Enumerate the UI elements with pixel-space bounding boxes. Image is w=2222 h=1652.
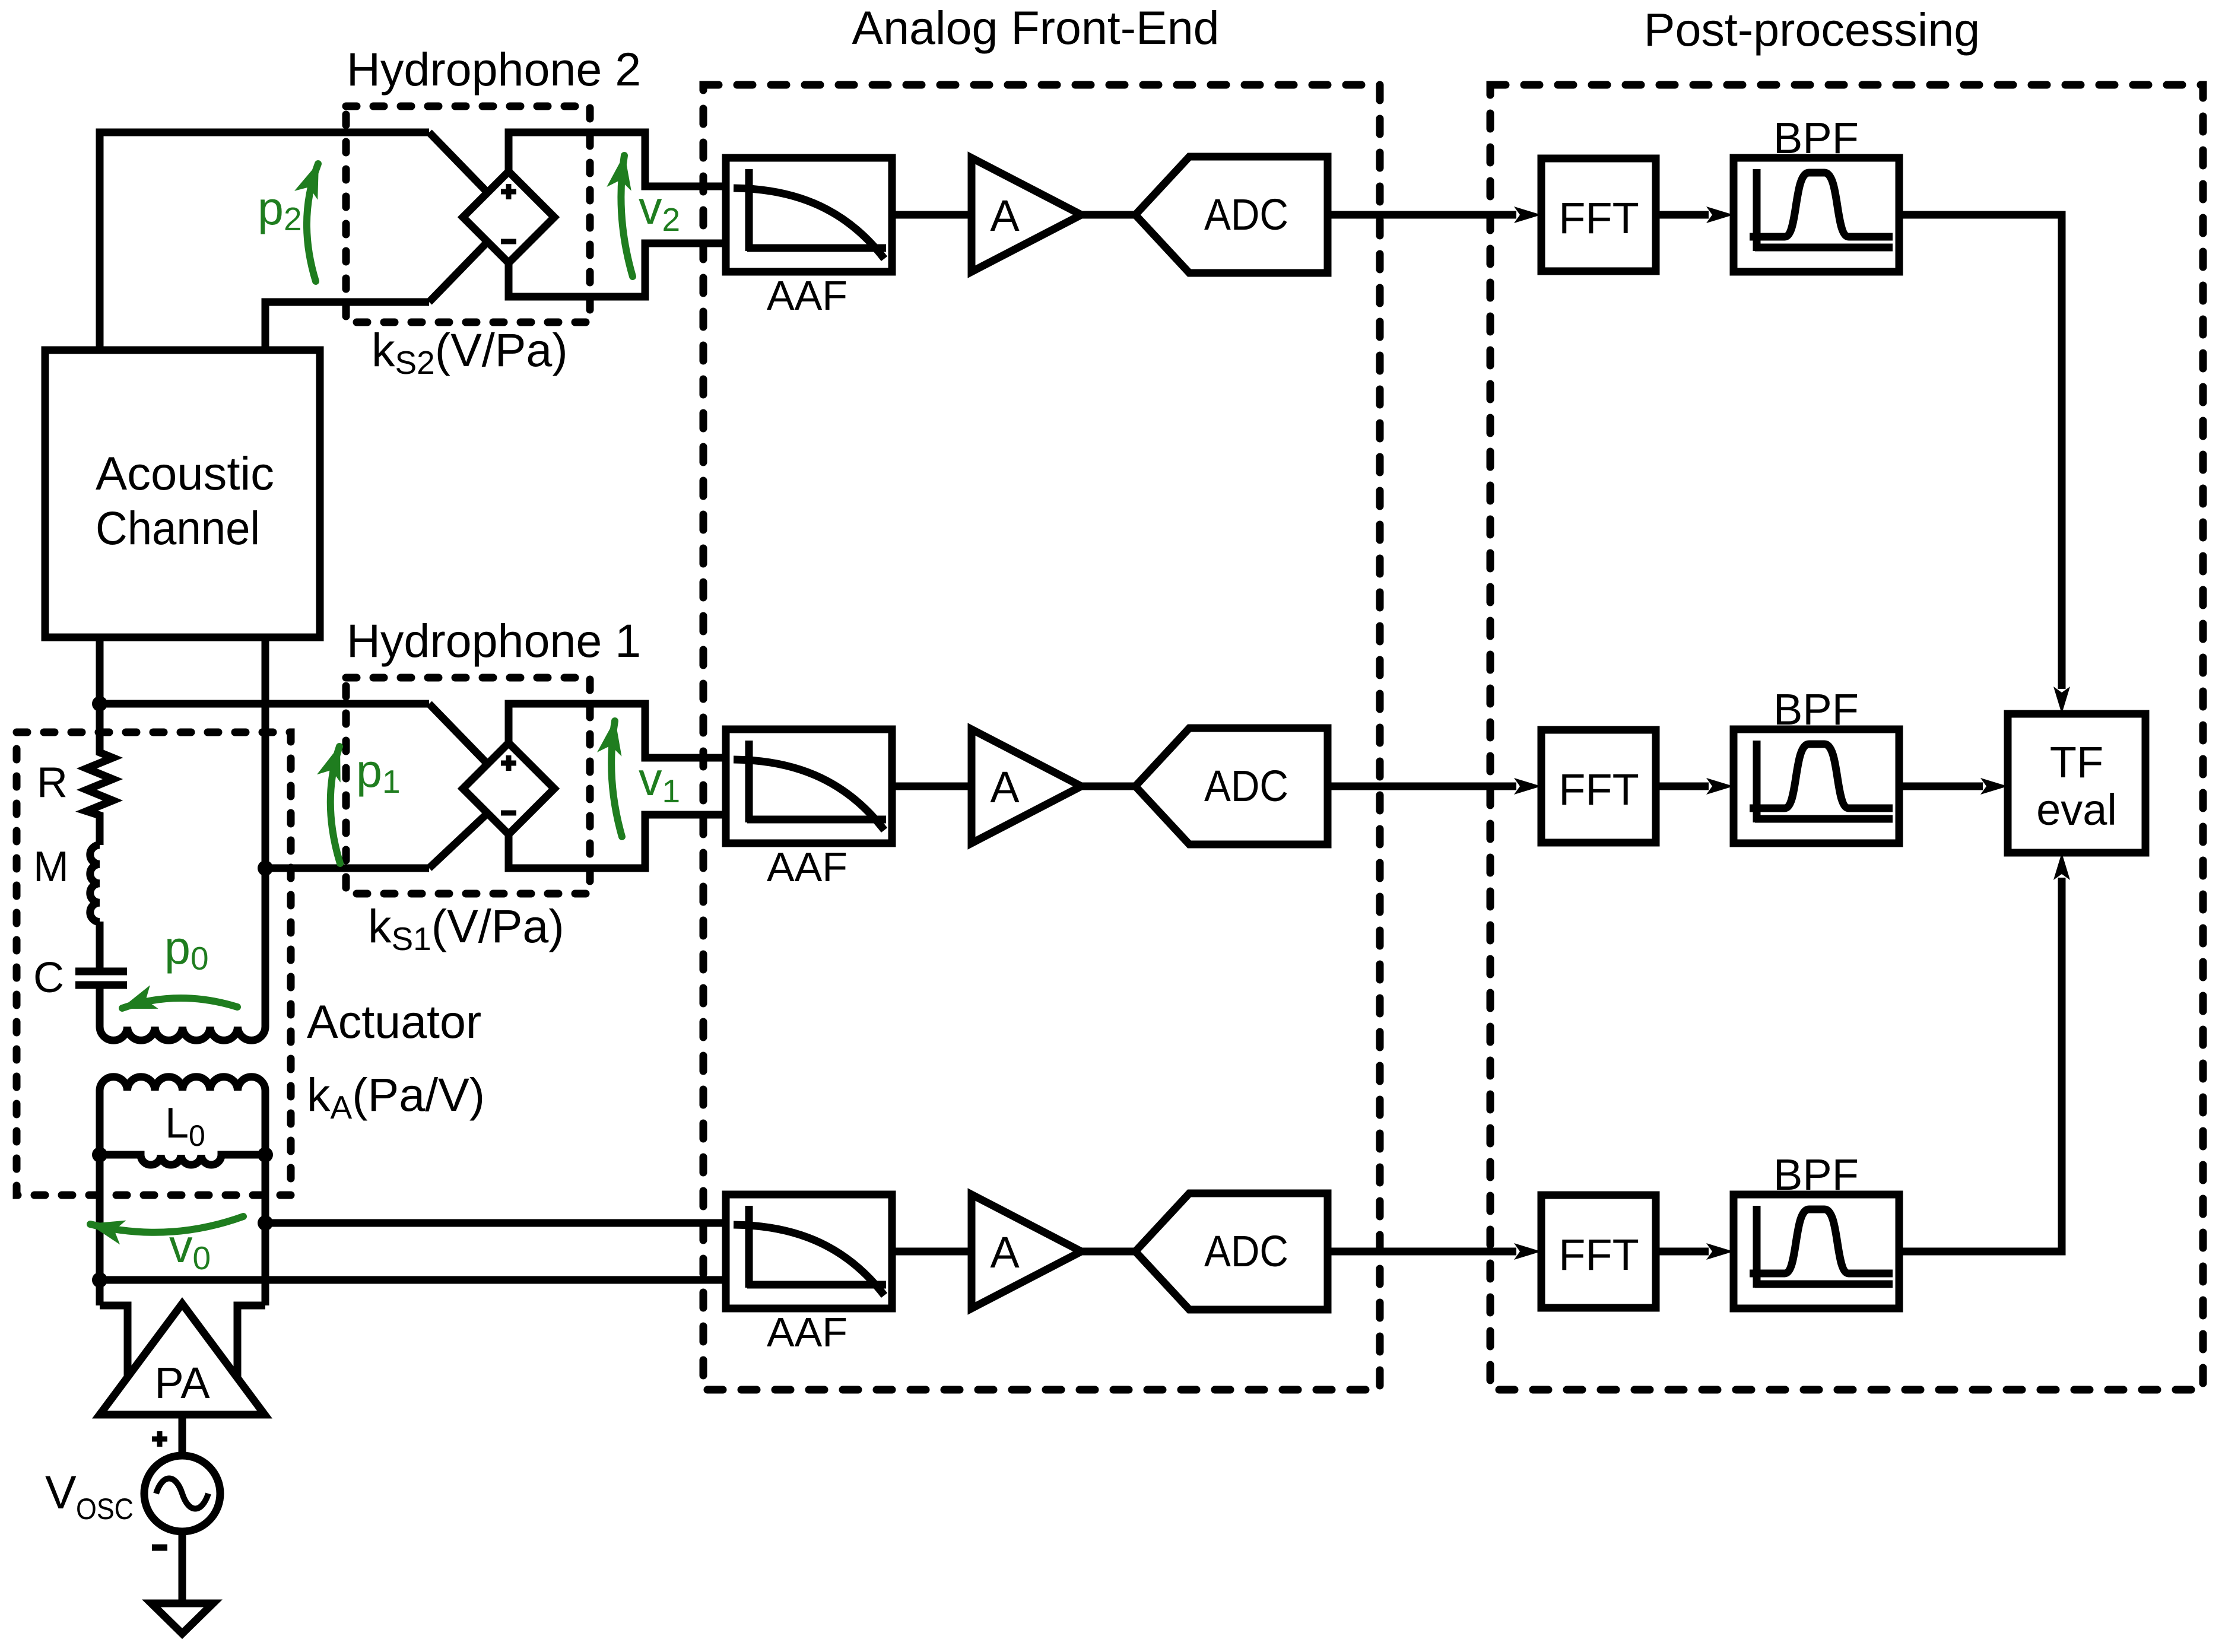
arrowhead into BPF2 — [1706, 778, 1734, 795]
arrow p0 — [122, 998, 237, 1008]
wire: hydrophone 2 lower input down to acoustic channel top — [265, 302, 429, 350]
FFT 3 box — [1541, 1195, 1656, 1308]
AAF 2 lowpass curve — [734, 760, 884, 830]
dependent source U2 diamond — [463, 171, 554, 263]
wire: acoustic channel bottom-left rail down to resistor R — [96, 637, 104, 749]
AAF 2 axes — [747, 741, 886, 822]
BPF 2 bandpass curve — [1750, 744, 1893, 808]
arrowhead into FFT1 — [1514, 206, 1541, 223]
arrow p1 — [331, 746, 340, 863]
svg-text:BPF: BPF — [1773, 1150, 1859, 1199]
svg-text:AAF: AAF — [767, 844, 847, 890]
svg-text:A: A — [990, 1228, 1020, 1277]
FFT 2 box — [1541, 730, 1656, 843]
svg-text:V: V — [45, 1466, 77, 1518]
svg-text:C: C — [33, 954, 64, 1002]
ADC 2 block — [1135, 728, 1328, 844]
resistor R — [87, 749, 113, 819]
AAF 3 axes — [747, 1206, 886, 1288]
AAF 1 axes — [747, 169, 886, 251]
wire ADC3 to FFT3 — [1328, 1248, 1516, 1256]
hydrophone 2 crossed input wire upper — [429, 132, 488, 193]
svg-text:AAF: AAF — [767, 272, 847, 319]
AAF filter 3 box — [726, 1194, 892, 1308]
svg-text:A: A — [990, 191, 1020, 240]
hydrophone 1 output flag upper — [509, 704, 726, 758]
svg-text:Post-processing: Post-processing — [1644, 3, 1980, 56]
svg-text:A: A — [990, 763, 1020, 812]
wire ADC2 to FFT2 — [1328, 783, 1516, 790]
AAF 3 lowpass curve — [734, 1225, 884, 1295]
wire — [1081, 1248, 1135, 1256]
hydrophone 2 output flag upper — [509, 132, 726, 186]
wire BPF1 right and down to TF eval — [1899, 215, 2062, 689]
node — [258, 1147, 273, 1162]
acoustic channel block — [45, 350, 320, 637]
wire: lower tap to AAF3 — [100, 1276, 726, 1284]
inductor L0 in parallel — [100, 1155, 265, 1165]
ADC 3 block — [1135, 1193, 1328, 1310]
inductor M — [90, 845, 100, 922]
svg-text:ADC: ADC — [1204, 190, 1288, 239]
svg-text:Hydrophone 2: Hydrophone 2 — [347, 43, 641, 96]
wire: PA output right step — [237, 1305, 265, 1378]
ground symbol — [151, 1603, 213, 1634]
plus sign in U1 — [501, 761, 516, 766]
BPF 2 box — [1734, 729, 1899, 843]
svg-text:Channel: Channel — [96, 501, 260, 554]
svg-text:OSC: OSC — [76, 1492, 134, 1526]
svg-text:FFT: FFT — [1558, 765, 1639, 814]
minus sign in U2 — [501, 239, 516, 244]
plus sign at oscillator — [152, 1437, 167, 1442]
svg-text:FFT: FFT — [1558, 193, 1639, 243]
wire — [1081, 211, 1135, 219]
minus sign in U1 — [501, 811, 516, 816]
svg-text:Acoustic: Acoustic — [96, 447, 274, 500]
hydrophone 1 crossed input wire upper — [429, 704, 488, 764]
svg-text:BPF: BPF — [1773, 113, 1859, 163]
svg-text:M: M — [33, 843, 69, 891]
hydrophone 2 crossed input wire lower — [429, 242, 488, 302]
power amplifier PA triangle — [100, 1304, 265, 1415]
post-processing dashed box — [1490, 85, 2203, 1390]
transformer secondary winding — [100, 1077, 265, 1091]
arrow v2 — [621, 155, 633, 277]
amplifier A3 triangle — [972, 1194, 1081, 1308]
hydrophone 1 crossed input wire lower — [429, 813, 488, 868]
wire FFT1 to BPF1 — [1656, 211, 1709, 219]
dependent source U1 diamond — [463, 743, 554, 834]
wire — [96, 922, 104, 968]
node: v0 sense lower tap — [92, 1272, 107, 1288]
wire — [892, 211, 972, 219]
arrowhead into BPF3 — [1706, 1243, 1734, 1260]
hydrophone 2 output flag lower — [509, 243, 726, 297]
svg-text:Actuator: Actuator — [307, 995, 481, 1048]
hydrophone 1 dashed box — [346, 678, 590, 894]
AAF 1 lowpass curve — [734, 188, 884, 259]
wire: secondary left end down to node line — [96, 1091, 104, 1155]
amplifier A2 triangle — [972, 729, 1081, 843]
arrowhead into BPF1 — [1706, 206, 1734, 223]
wire — [892, 783, 972, 790]
oscillator VOSC circle — [144, 1456, 220, 1532]
wire: acoustic channel top-left up to hydrophone 2 upper input — [100, 132, 429, 350]
svg-text:ADC: ADC — [1204, 1227, 1288, 1276]
wire — [96, 819, 104, 845]
BPF 2 axes — [1755, 741, 1893, 822]
wire: right rail to PA — [262, 1155, 269, 1305]
BPF 3 box — [1734, 1194, 1899, 1308]
wire: hydrophone 1 upper input — [100, 700, 429, 708]
svg-text:BPF: BPF — [1773, 685, 1859, 734]
svg-text:R: R — [37, 759, 68, 806]
analog front-end dashed box — [703, 85, 1380, 1390]
actuator dashed box — [17, 732, 291, 1195]
svg-text:Analog Front-End: Analog Front-End — [852, 1, 1219, 54]
wire FFT3 to BPF3 — [1656, 1248, 1709, 1256]
svg-text:PA: PA — [154, 1358, 210, 1408]
transformer primary winding — [100, 1027, 265, 1040]
wire: secondary right end down to node line — [262, 1091, 269, 1155]
sine wave inside VOSC — [156, 1479, 208, 1509]
FFT 1 box — [1541, 158, 1656, 271]
node: junction of right rail and hydrophone 1 lower input — [258, 860, 273, 876]
TF eval box — [2008, 714, 2145, 853]
wire: VOSC to ground — [179, 1532, 186, 1603]
BPF 1 bandpass curve — [1750, 173, 1893, 237]
svg-text:TF: TF — [2050, 738, 2103, 787]
arrowhead into FFT2 — [1514, 778, 1541, 795]
wire BPF3 right and up to TF eval — [1899, 878, 2062, 1251]
svg-text:AAF: AAF — [767, 1309, 847, 1355]
amplifier A1 triangle — [972, 158, 1081, 272]
arrowhead into TF eval left — [1980, 778, 2008, 795]
wire ADC1 to FFT1 — [1328, 211, 1516, 219]
wire FFT2 to BPF2 — [1656, 783, 1709, 790]
wire: upper tap to AAF3 — [265, 1219, 726, 1227]
svg-text:eval: eval — [2036, 785, 2117, 834]
arrowhead into FFT3 — [1514, 1243, 1541, 1260]
minus sign at oscillator — [152, 1545, 167, 1551]
wire: acoustic channel bottom-right rail down to transformer primary — [262, 637, 269, 1027]
arrowhead into TF eval bottom — [2053, 853, 2070, 880]
svg-text:FFT: FFT — [1558, 1230, 1639, 1279]
arrowhead into TF eval top — [2053, 687, 2070, 714]
arrow p2 — [307, 164, 318, 281]
wire — [892, 1248, 972, 1256]
hydrophone 2 dashed box — [346, 106, 590, 322]
node: v0 sense upper tap — [258, 1215, 273, 1231]
arrow v0 — [90, 1216, 243, 1232]
BPF 3 bandpass curve — [1750, 1209, 1893, 1273]
node — [92, 1147, 107, 1162]
wire: hydrophone 1 lower input — [265, 865, 429, 872]
svg-text:Hydrophone 1: Hydrophone 1 — [347, 614, 641, 667]
wire — [96, 989, 104, 1027]
BPF 1 box — [1734, 158, 1899, 272]
wire — [1081, 783, 1135, 790]
AAF filter 2 box — [726, 729, 892, 843]
hydrophone 1 output flag lower — [509, 815, 726, 868]
arrow v1 — [611, 721, 622, 837]
wire: left rail to PA — [96, 1155, 104, 1305]
BPF 1 axes — [1755, 169, 1893, 251]
plus sign in U2 — [501, 189, 516, 195]
svg-text:ADC: ADC — [1204, 761, 1288, 811]
ADC 1 block — [1135, 157, 1328, 273]
AAF filter 1 box — [726, 158, 892, 272]
wire: PA output left step — [100, 1305, 128, 1378]
capacitor C — [75, 968, 127, 976]
wire: PA input from oscillator — [179, 1415, 186, 1456]
node: junction of left rail and hydrophone 1 upper input — [92, 696, 107, 711]
BPF 3 axes — [1755, 1206, 1893, 1288]
wire BPF2 to TF eval — [1899, 783, 1983, 790]
